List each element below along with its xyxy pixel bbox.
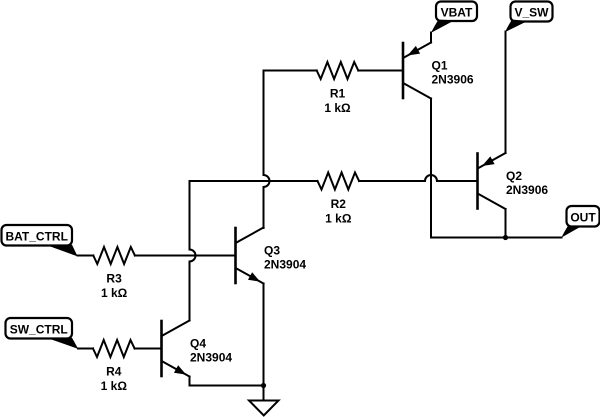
net flag V_SW (505, 2, 553, 33)
wire R1 right to Q1 base (358, 70, 402, 72)
ground (249, 386, 279, 416)
wire SW_CTRL to R4 (78, 348, 93, 350)
svg-text:R2: R2 (331, 197, 347, 211)
wire Q1 collector to OUT (431, 99, 562, 238)
svg-text:OUT: OUT (570, 211, 596, 225)
wire R1 left to Q3 collector (hops over R2 wire) (264, 71, 317, 229)
label R4 1 kOhm (101, 365, 128, 394)
svg-text:2N3906: 2N3906 (506, 183, 548, 197)
wire VBAT to Q1 emitter (430, 33, 432, 43)
svg-text:2N3906: 2N3906 (432, 73, 474, 87)
wire Q2 collector to OUT node (505, 209, 507, 238)
wire V_SW to Q2 emitter (505, 32, 507, 154)
junction dot ground node (261, 383, 266, 388)
svg-text:1 kΩ: 1 kΩ (101, 286, 128, 300)
transistor Q1 (403, 43, 431, 99)
transistor Q2 (478, 153, 506, 209)
svg-text:Q1: Q1 (432, 59, 448, 73)
junction dot OUT node (503, 235, 508, 240)
wire R2 left to Q4 collector (hops over Q3 base wire) (190, 181, 318, 321)
label Q3 2N3904 (264, 244, 306, 272)
svg-text:Q2: Q2 (506, 169, 522, 183)
label Q2 2N3906 (506, 169, 548, 197)
label Q1 2N3906 (432, 59, 474, 87)
wire Q3 emitter to ground node (263, 284, 265, 386)
svg-text:1 kΩ: 1 kΩ (101, 379, 128, 393)
label Q4 2N3904 (190, 337, 232, 365)
svg-text:BAT_CTRL: BAT_CTRL (5, 230, 67, 244)
svg-text:R1: R1 (330, 87, 346, 101)
resistor R1 (317, 62, 359, 79)
resistor R2 (318, 173, 360, 190)
wire R4 to Q4 base (135, 348, 161, 350)
resistor R3 (93, 247, 135, 264)
net flag OUT (561, 206, 599, 238)
transistor Q3 (236, 228, 264, 284)
svg-text:Q3: Q3 (264, 244, 280, 258)
label R1 1 kOhm (324, 87, 351, 116)
svg-text:V_SW: V_SW (514, 6, 549, 20)
resistor R4 (93, 340, 135, 357)
svg-text:2N3904: 2N3904 (190, 351, 232, 365)
svg-text:R3: R3 (106, 272, 122, 286)
wire BAT_CTRL to R3 (78, 255, 94, 257)
wire Q4 emitter to ground node (190, 377, 264, 386)
net flag BAT_CTRL (2, 225, 78, 256)
svg-text:1 kΩ: 1 kΩ (325, 212, 352, 226)
label R3 1 kOhm (101, 272, 128, 301)
svg-text:SW_CTRL: SW_CTRL (10, 323, 68, 337)
wire R2 right to Q2 base (hops over Q1 collector) (359, 175, 476, 181)
svg-text:2N3904: 2N3904 (264, 258, 306, 272)
svg-text:R4: R4 (106, 365, 122, 379)
svg-text:1 kΩ: 1 kΩ (324, 101, 351, 115)
label R2 1 kOhm (325, 197, 352, 226)
net flag VBAT (431, 2, 477, 33)
transistor Q4 (162, 321, 190, 377)
net flag SW_CTRL (6, 318, 79, 349)
svg-text:Q4: Q4 (190, 337, 206, 351)
wire R3 to Q3 base (135, 255, 235, 257)
svg-text:VBAT: VBAT (441, 6, 473, 20)
